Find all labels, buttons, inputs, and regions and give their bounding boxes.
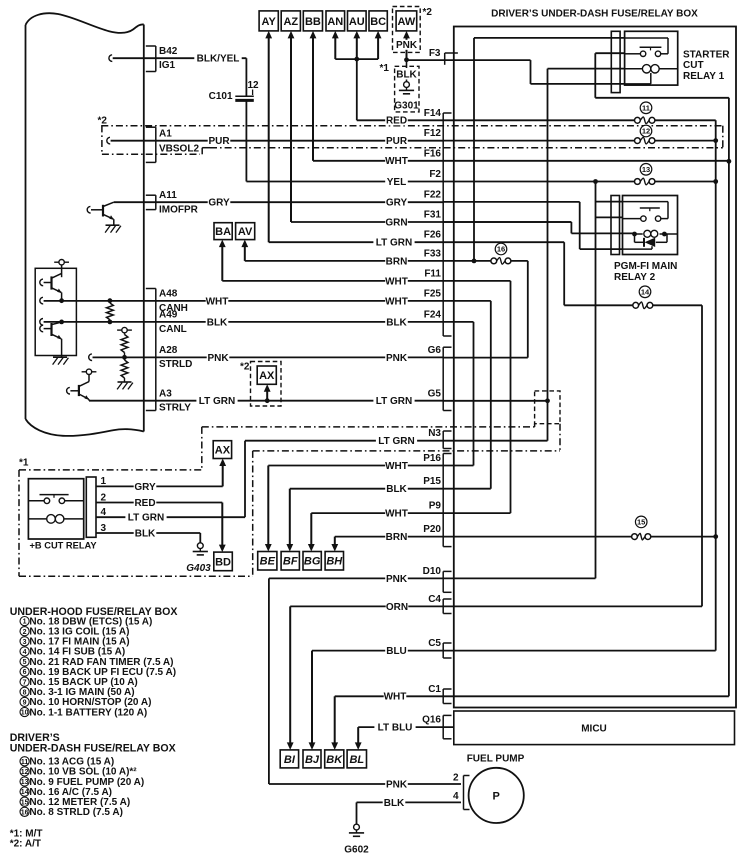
list item fuse 13 xyxy=(20,777,29,786)
wire F25 WHT down to P15 xyxy=(490,301,492,489)
connector BK xyxy=(325,750,344,768)
svg-text:STRLY: STRLY xyxy=(159,403,191,414)
wire F11 WHT row xyxy=(222,280,510,282)
arrow into AW xyxy=(406,36,408,60)
label RED at y=120.3 xyxy=(385,115,408,125)
svg-text:F11: F11 xyxy=(424,268,441,279)
label BRN at y=536.6 xyxy=(385,532,408,542)
svg-text:B42: B42 xyxy=(159,46,178,57)
wire D10 PNK xyxy=(269,577,596,579)
svg-text:GRY: GRY xyxy=(208,198,230,209)
label WHT at y=465.5 xyxy=(385,461,408,471)
svg-text:WHT: WHT xyxy=(385,509,408,520)
dashed option box *2 around AW xyxy=(393,7,421,53)
svg-text:G301: G301 xyxy=(394,101,419,112)
svg-text:2: 2 xyxy=(453,773,459,784)
svg-text:F16: F16 xyxy=(424,148,442,159)
relay 1 internal coil xyxy=(642,65,650,73)
connector AV xyxy=(236,223,255,240)
svg-text:A48: A48 xyxy=(159,289,178,300)
svg-text:13: 13 xyxy=(642,165,650,174)
svg-text:BRN: BRN xyxy=(386,532,408,543)
svg-text:P: P xyxy=(493,790,500,802)
list item fuse 2 xyxy=(20,627,29,636)
label LT GRN at y=400.7 xyxy=(373,396,414,406)
svg-text:F25: F25 xyxy=(424,288,442,299)
svg-text:RED: RED xyxy=(134,498,155,509)
ground G301 xyxy=(404,82,410,88)
svg-text:11: 11 xyxy=(642,104,650,113)
label RED at y=502.5 xyxy=(134,498,157,508)
svg-text:PGM-FI MAIN: PGM-FI MAIN xyxy=(614,261,677,272)
wire joining AN AU BC xyxy=(335,58,378,60)
svg-text:BLK/YEL: BLK/YEL xyxy=(197,54,240,65)
connector bracket C1 xyxy=(442,689,444,704)
svg-text:No. 1-1 BATTERY (120 A): No. 1-1 BATTERY (120 A) xyxy=(29,707,147,718)
connector BC xyxy=(369,11,387,31)
wire PNK to fuel pump pin 2 xyxy=(269,783,461,785)
label BLK at y=802.4 xyxy=(383,797,406,807)
wire Q16 LT BLU to MICU xyxy=(358,726,454,728)
relay 2 internal contact xyxy=(623,201,669,203)
wire G6 PNK row xyxy=(443,357,528,359)
connector bracket D10 xyxy=(442,571,444,592)
wire F33 BRN fuse 16 xyxy=(491,258,497,264)
wire relay1 pin1 to fuse 16 junction xyxy=(474,37,625,39)
list item fuse 6 xyxy=(20,667,29,676)
wire C5 BLU xyxy=(312,650,716,652)
wire A49 BLK (CANL) xyxy=(40,319,43,326)
resistor R2 (STRLD pull-up) xyxy=(124,333,126,335)
svg-text:*2: *2 xyxy=(423,7,433,18)
svg-text:AN: AN xyxy=(327,16,343,28)
arrow into AN xyxy=(334,36,336,59)
transistor Q3 (A11 IMOFPR driver) xyxy=(102,205,104,217)
svg-text:BA: BA xyxy=(215,226,231,238)
svg-text:LT GRN: LT GRN xyxy=(199,396,235,407)
svg-text:WHT: WHT xyxy=(384,692,407,703)
dashed option line around N3 xyxy=(202,426,535,428)
wire P20 BRN with fuse 15 to BH xyxy=(335,536,632,538)
svg-text:4: 4 xyxy=(453,791,459,802)
PGM-FI main relay 2 connector bar xyxy=(611,196,620,255)
svg-text:PNK: PNK xyxy=(396,40,418,51)
connector bracket F14-F24 xyxy=(442,113,444,336)
dashed option line over BE-BH xyxy=(253,450,560,452)
arrow RED into BD xyxy=(221,503,223,548)
svg-text:G403: G403 xyxy=(186,563,211,574)
list item fuse 3 xyxy=(20,637,29,646)
label PNK at y=357.4 xyxy=(385,352,408,362)
PGM-FI main relay 2 box xyxy=(623,196,678,255)
svg-text:A49: A49 xyxy=(159,310,178,321)
svg-text:*2: *2 xyxy=(98,116,108,127)
list item fuse 4 xyxy=(20,647,29,656)
wire N3 LT GRN row xyxy=(443,440,547,442)
wire BB corner to WHT row xyxy=(313,160,729,162)
wire down to C101 xyxy=(245,58,247,96)
list item fuse 12 xyxy=(20,767,29,776)
chassis ground below R3 xyxy=(118,381,132,383)
svg-text:BLK: BLK xyxy=(386,317,407,328)
fuel pump bracket xyxy=(463,776,465,810)
wire A48 WHT (CANH) xyxy=(40,297,43,304)
label PNK at y=578.4 xyxy=(385,573,408,583)
label LT GRN at y=440.7 xyxy=(376,436,417,446)
label BLK at y=321.9 xyxy=(206,317,229,327)
connector BB xyxy=(303,11,322,31)
label LT BLU at y=727.1 xyxy=(374,722,415,732)
svg-text:4: 4 xyxy=(23,649,27,656)
connector bracket P16-P20 xyxy=(442,454,444,547)
label WHT at y=280.9 xyxy=(385,276,408,286)
wire +B pin2 RED to BD xyxy=(96,502,222,504)
label WHT at y=513.1 xyxy=(385,508,408,518)
svg-text:WHT: WHT xyxy=(385,156,408,167)
wire D10 down to fuel pump pin 2 xyxy=(268,578,270,784)
connector pin A1/VBSOL2 bracket xyxy=(155,127,157,162)
connector BH xyxy=(325,552,343,571)
svg-text:IG1: IG1 xyxy=(159,60,176,71)
svg-text:VBSOL2: VBSOL2 xyxy=(159,143,199,154)
svg-text:F2: F2 xyxy=(429,169,441,180)
node STRLD junction dot xyxy=(122,355,127,360)
svg-text:ORN: ORN xyxy=(386,602,408,613)
list item fuse 8 xyxy=(20,687,29,696)
svg-text:16: 16 xyxy=(21,809,29,816)
svg-text:6: 6 xyxy=(23,669,27,676)
wire C4 ORN xyxy=(290,605,702,607)
ECM outline (torn edges) xyxy=(26,13,144,33)
driver's under-dash fuse/relay box outline xyxy=(454,27,736,708)
svg-text:8: 8 xyxy=(23,689,27,696)
connector BF xyxy=(281,552,299,571)
svg-text:BRN: BRN xyxy=(386,256,408,267)
arrow+wire into AZ from GRN xyxy=(290,36,292,222)
svg-text:5: 5 xyxy=(23,659,27,666)
svg-text:P9: P9 xyxy=(429,501,442,512)
svg-text:11: 11 xyxy=(21,759,29,766)
connector bracket C5 xyxy=(442,643,444,658)
svg-text:STARTER: STARTER xyxy=(683,49,730,60)
wire fuse14 output down to C4 xyxy=(701,305,703,606)
wire BLK to ground G301 xyxy=(406,60,408,68)
svg-text:BLU: BLU xyxy=(386,646,407,657)
svg-text:PUR: PUR xyxy=(386,136,408,147)
svg-text:C5: C5 xyxy=(428,638,441,649)
svg-text:7: 7 xyxy=(23,679,27,686)
svg-text:AW: AW xyxy=(398,16,416,28)
svg-text:BJ: BJ xyxy=(305,754,320,766)
connector AY xyxy=(259,11,278,31)
wire AZ corner to GRN row xyxy=(291,221,571,223)
wire relay2 pin stubs xyxy=(596,201,623,203)
wire fuse16 output down to G6 xyxy=(527,261,529,358)
svg-text:CUT: CUT xyxy=(683,60,704,71)
label ORN at y=606.4 xyxy=(386,601,409,611)
label BRN at y=260.9 xyxy=(385,256,408,266)
svg-text:GRY: GRY xyxy=(134,482,156,493)
wire A1 PUR xyxy=(107,137,110,144)
connector bracket Q16 xyxy=(442,715,444,738)
wire relay1 contact to WHT junction xyxy=(595,52,624,54)
supply circle above resistor R2 xyxy=(117,329,122,331)
wire A11 GRY xyxy=(114,201,443,203)
connector BE xyxy=(258,552,277,571)
wire P16 WHT to BE xyxy=(268,465,473,467)
svg-text:F26: F26 xyxy=(424,230,442,241)
svg-text:D10: D10 xyxy=(423,566,442,577)
wire relay1 coil to G5/N3 xyxy=(548,68,625,70)
svg-text:UNDER-DASH FUSE/RELAY BOX: UNDER-DASH FUSE/RELAY BOX xyxy=(10,742,176,754)
svg-text:*2: A/T: *2: A/T xyxy=(10,838,41,849)
wire A28 PNK xyxy=(89,354,92,361)
connector AZ xyxy=(281,11,300,31)
connector AX (lower) xyxy=(213,441,231,459)
connector AN xyxy=(326,11,345,31)
arrow GRY into AX xyxy=(222,464,224,487)
svg-text:BH: BH xyxy=(326,556,343,568)
svg-text:F24: F24 xyxy=(424,309,442,320)
wire AU group down to RED row xyxy=(356,59,358,120)
+B relay internal contact xyxy=(40,494,69,496)
wire C1 WHT xyxy=(335,695,729,697)
svg-text:AY: AY xyxy=(262,16,277,28)
label GRY at y=202.2 xyxy=(208,197,231,207)
svg-text:AU: AU xyxy=(349,16,365,28)
svg-text:P15: P15 xyxy=(423,476,441,487)
label GRY at y=486.4 xyxy=(134,481,157,491)
arrow+wire into AY from LT GRN xyxy=(268,36,270,242)
svg-text:P20: P20 xyxy=(423,524,441,535)
list item fuse 11 xyxy=(20,757,29,766)
svg-text:DRIVER’S UNDER-DASH FUSE/RELAY: DRIVER’S UNDER-DASH FUSE/RELAY BOX xyxy=(491,9,698,20)
svg-text:2: 2 xyxy=(23,629,27,636)
svg-text:12: 12 xyxy=(21,769,29,776)
list item fuse 16 xyxy=(20,807,29,816)
fuel pump motor xyxy=(469,768,524,823)
label YEL at y=181.5 xyxy=(385,177,408,187)
node CANL junction dots xyxy=(59,320,64,325)
connector bracket N3 xyxy=(442,431,444,449)
svg-text:13: 13 xyxy=(21,779,29,786)
connector AW xyxy=(396,11,417,31)
arrow C5 to BJ xyxy=(311,651,313,745)
transistor Q1 (CANH driver) xyxy=(50,276,52,289)
wire YEL junction down to D10 xyxy=(595,182,597,579)
list item fuse 15 xyxy=(20,797,29,806)
svg-text:PNK: PNK xyxy=(386,353,408,364)
svg-text:G602: G602 xyxy=(344,845,369,856)
arrow into AV from BRN F33 xyxy=(244,245,246,261)
svg-text:RELAY 2: RELAY 2 xyxy=(614,272,656,283)
label PNK at y=44.8 xyxy=(395,40,418,50)
label GRY at y=202.2 xyxy=(385,197,408,207)
svg-text:*1: *1 xyxy=(380,63,390,74)
relay 2 bottom pin internal xyxy=(623,248,653,250)
label PNK at y=784.0 xyxy=(385,779,408,789)
list item fuse 9 xyxy=(20,697,29,706)
node junction AW/F3/G301 xyxy=(404,57,409,62)
svg-text:F31: F31 xyxy=(424,210,442,221)
svg-text:PNK: PNK xyxy=(386,574,408,585)
svg-text:12: 12 xyxy=(248,80,260,91)
label BLK at y=488.7 xyxy=(385,484,408,494)
starter cut relay 1 box xyxy=(625,31,678,85)
wire P15 BLK to BF xyxy=(290,488,491,490)
svg-text:FUEL PUMP: FUEL PUMP xyxy=(467,754,525,765)
label LT GRN at y=400.7 xyxy=(196,396,237,406)
wire bus fuses 11/12/13 down to C5 xyxy=(715,120,717,650)
svg-text:LT GRN: LT GRN xyxy=(376,396,412,407)
svg-text:C101: C101 xyxy=(209,91,233,102)
svg-text:LT GRN: LT GRN xyxy=(378,436,414,447)
svg-text:A3: A3 xyxy=(159,388,172,399)
connector BG xyxy=(303,552,321,571)
wire F2 YEL with fuse 13 xyxy=(246,181,634,183)
chassis ground below Q2 xyxy=(53,356,67,358)
svg-text:WHT: WHT xyxy=(385,296,408,307)
wire C101 to YEL row xyxy=(245,100,247,181)
wire A3 LT GRN xyxy=(89,400,443,402)
svg-text:YEL: YEL xyxy=(387,177,406,188)
wire +B pin3 BLK to ground xyxy=(96,532,200,534)
svg-text:BE: BE xyxy=(260,556,276,568)
svg-text:F22: F22 xyxy=(424,189,442,200)
svg-text:9: 9 xyxy=(23,700,27,707)
wire F26 LT GRN to fuse 14 xyxy=(563,242,565,305)
list item fuse 10 xyxy=(20,707,29,716)
arrow into AU xyxy=(356,36,358,59)
svg-text:CANL: CANL xyxy=(159,324,187,335)
wire F22 GRY to relay2 xyxy=(443,201,580,203)
supply circle for CAN transistors xyxy=(54,261,59,263)
arrow+wire into BB from WHT F16 xyxy=(312,36,314,161)
svg-text:1: 1 xyxy=(23,619,27,626)
svg-text:WHT: WHT xyxy=(385,276,408,287)
wire VBSOL2 dashed (A/T) xyxy=(201,148,203,155)
transistor Q2 (CANL driver) xyxy=(50,323,52,336)
label LT GRN at y=242.2 xyxy=(373,237,414,247)
svg-text:AZ: AZ xyxy=(283,16,298,28)
svg-text:PUR: PUR xyxy=(208,136,230,147)
ECM internal box (CAN driver) xyxy=(35,268,76,355)
wire F14 RED with fuse 11 xyxy=(635,117,641,123)
svg-text:BB: BB xyxy=(305,16,321,28)
wire G5 LT GRN row xyxy=(443,400,547,402)
svg-text:No. 8 STRLD (7.5 A): No. 8 STRLD (7.5 A) xyxy=(29,807,123,818)
svg-text:10: 10 xyxy=(21,710,29,717)
svg-text:14: 14 xyxy=(641,288,650,297)
svg-text:14: 14 xyxy=(21,789,29,796)
svg-text:AX: AX xyxy=(215,445,231,457)
wire AY corner to LT GRN row xyxy=(269,241,565,243)
starter cut relay 1 connector bar xyxy=(611,31,620,92)
svg-text:BL: BL xyxy=(349,754,364,766)
+B cut relay connector bar xyxy=(86,477,96,537)
ground G602 xyxy=(354,824,360,830)
transistor Q4 (A3 STRLY driver) xyxy=(82,371,87,373)
svg-text:AV: AV xyxy=(238,226,253,238)
diode D1 in relay 2 xyxy=(634,234,636,242)
svg-text:C1: C1 xyxy=(428,684,441,695)
wire F24 BLK down to P16 xyxy=(473,322,475,466)
svg-text:A1: A1 xyxy=(159,129,172,140)
chassis ground below Q3 xyxy=(106,224,120,226)
svg-text:N3: N3 xyxy=(428,428,441,439)
node CANH junction dots xyxy=(59,298,64,303)
svg-text:WHT: WHT xyxy=(206,296,229,307)
svg-text:P16: P16 xyxy=(423,453,441,464)
label BLU at y=650.6 xyxy=(385,646,408,656)
wire F33 BRN row xyxy=(245,260,491,262)
svg-text:G6: G6 xyxy=(428,345,442,356)
arrow C4 to BI xyxy=(289,606,291,745)
svg-text:RED: RED xyxy=(386,116,407,127)
svg-text:BD: BD xyxy=(215,556,231,568)
connector AX (upper) xyxy=(257,366,276,384)
label PUR at y=140.7 xyxy=(385,136,408,146)
+B cut relay box xyxy=(28,479,83,539)
svg-text:*1: *1 xyxy=(19,458,29,469)
arrow into AX from A3 wire xyxy=(266,389,268,400)
relay 1 internal contact xyxy=(625,37,668,39)
svg-text:PNK: PNK xyxy=(386,779,408,790)
label BLK/YEL at y=58.2 xyxy=(194,53,241,63)
wire down right side to C1 xyxy=(728,98,730,697)
svg-text:BLK: BLK xyxy=(386,484,407,495)
connector AU xyxy=(348,11,367,31)
connector pin B42/IG1 bracket xyxy=(155,46,157,72)
small dashed option box at G5 junction xyxy=(535,391,560,424)
label GRN at y=222.0 xyxy=(385,217,408,227)
wire F3 to relay1 xyxy=(407,59,531,61)
list item fuse 7 xyxy=(20,677,29,686)
svg-text:LT GRN: LT GRN xyxy=(376,238,412,249)
svg-text:AX: AX xyxy=(259,370,275,382)
wire F11 WHT down to P9 xyxy=(510,281,512,513)
svg-text:Q16: Q16 xyxy=(422,715,441,726)
label WHT at y=300.9 xyxy=(385,296,408,306)
list item fuse 1 xyxy=(20,617,29,626)
relay 2 internal coil xyxy=(644,230,651,237)
list item fuse 14 xyxy=(20,787,29,796)
svg-text:BLK: BLK xyxy=(135,528,156,539)
svg-text:RELAY 1: RELAY 1 xyxy=(683,71,725,82)
resistor R1 (CAN termination) xyxy=(107,303,114,320)
wire fuse 14 row xyxy=(564,304,633,306)
label WHT at y=696.3 xyxy=(384,691,407,701)
svg-text:LT BLU: LT BLU xyxy=(378,723,413,734)
wire F31 GRN to relay2 coil xyxy=(443,221,571,223)
svg-text:15: 15 xyxy=(21,799,29,806)
list item fuse 5 xyxy=(20,657,29,666)
wire RED row to F14 xyxy=(357,119,635,121)
svg-text:PNK: PNK xyxy=(207,353,229,364)
wire BLK fuel pump pin 4 to ground xyxy=(357,801,462,803)
wire B42 BLK/YEL xyxy=(109,55,112,62)
label WHT at y=160.8 xyxy=(385,156,408,166)
svg-text:BI: BI xyxy=(284,754,296,766)
svg-text:BK: BK xyxy=(326,754,343,766)
+B relay internal coil xyxy=(47,515,56,524)
svg-text:STRLD: STRLD xyxy=(159,359,192,370)
connector pin A11/IMOFPR bracket xyxy=(155,195,157,209)
ground G403 xyxy=(197,543,203,549)
svg-text:GRY: GRY xyxy=(386,198,408,209)
svg-text:C4: C4 xyxy=(428,594,441,605)
svg-text:F14: F14 xyxy=(424,108,442,119)
